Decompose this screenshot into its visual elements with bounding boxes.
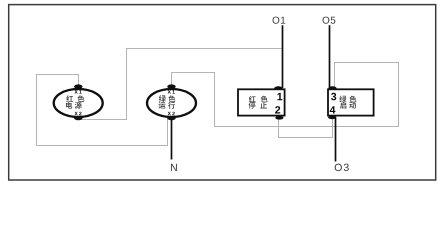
- wire: lamp HL2 terminal X1 around below buttons and up to start button pin 3: [172, 63, 399, 127]
- pin number 2: [275, 106, 280, 113]
- label X1 of lamp HL1: [74, 90, 81, 93]
- terminal X2 of lamp HL2 (dot): [167, 116, 175, 120]
- pin 4 of SB2 (dot): [328, 116, 336, 120]
- label X2 of lamp HL1: [74, 112, 81, 115]
- wire: lamp HL1 terminal X1 around left side to lamp HL2 terminal X2 (N net): [37, 75, 168, 146]
- wire: lamp HL1 terminal X2 to stop button pin 1 / O1 line: [79, 49, 282, 120]
- node O1 label: [273, 17, 286, 24]
- wire N: from lamp HL2 terminal X2 down to label N: [171, 118, 173, 160]
- wire O3: from start button pin 4 down to label O3: [335, 117, 337, 161]
- push button SB1 (stop button 红色停止): [238, 89, 285, 115]
- push button SB2 (start button 绿色启动): [328, 89, 374, 115]
- pin 2 of SB1 (dot): [275, 116, 283, 120]
- label X2 of lamp HL2: [168, 112, 175, 115]
- label X1 of lamp HL2: [168, 90, 175, 93]
- pin number 4: [330, 106, 336, 113]
- wire O1: from label O1 down to stop button pin 1: [282, 25, 284, 88]
- pin 3 of SB2 (dot): [328, 86, 336, 90]
- lamp HL2 (green run indicator 绿色运行): [147, 89, 196, 117]
- node O5 label: [323, 17, 336, 24]
- node O3 label: [335, 164, 349, 171]
- wire O5: from label O5 down to start button pin 3: [329, 25, 331, 88]
- terminal X1 of lamp HL1 (dot): [74, 84, 82, 88]
- terminal X2 of lamp HL1 (dot): [74, 116, 82, 120]
- pin number 3: [331, 93, 336, 101]
- lamp HL1 (red power indicator 红色电源): [54, 89, 103, 117]
- wire: stop button pin 2 to start button pin 4: [279, 118, 333, 138]
- pin 1 of SB1 (dot): [274, 86, 282, 90]
- terminal X1 of lamp HL2 (dot): [167, 84, 175, 88]
- pin number 1: [277, 93, 282, 100]
- node N label: [171, 164, 177, 171]
